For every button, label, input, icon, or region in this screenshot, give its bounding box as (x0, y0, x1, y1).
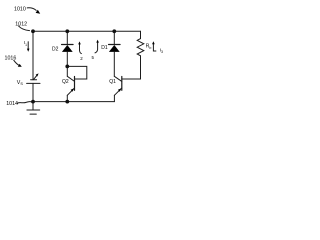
node dot Q2 emitter (65, 100, 69, 104)
label 1012 leader (19, 26, 30, 31)
current arrow I3 (near Rb) (152, 41, 156, 51)
node dot D1 top (112, 29, 116, 33)
svg-text:2: 2 (80, 56, 83, 61)
wire Q1 emitter to rail (113, 95, 115, 101)
diode D1 (109, 45, 120, 52)
svg-text:1016: 1016 (5, 56, 17, 62)
wire bottom rail (33, 101, 114, 103)
svg-text:D1: D1 (101, 45, 108, 51)
svg-text:VS: VS (17, 80, 24, 86)
transistor Q2 (67, 76, 74, 95)
label 1016 leader arrow (14, 60, 22, 67)
current arrow I2 (near D2) (78, 41, 81, 53)
node dot 1012 top-left (31, 29, 35, 33)
svg-text:Q1: Q1 (109, 79, 116, 85)
svg-text:1014: 1014 (6, 101, 18, 107)
ground (27, 102, 40, 115)
wire D1 to Q1 collector (113, 52, 115, 76)
wire left branch lower (32, 83, 34, 101)
label 1014 leader (18, 102, 32, 104)
current arrow (near D1) (95, 40, 99, 53)
wire left branch upper (32, 31, 34, 80)
wire D1 branch upper (113, 31, 115, 44)
wire D2 to Q2 collector (66, 52, 68, 76)
wire Q2 emitter to rail (66, 95, 68, 101)
svg-text:Rb: Rb (146, 44, 152, 50)
node dot D2 top (65, 29, 69, 33)
svg-text:D2: D2 (52, 46, 59, 52)
transistor Q1 (114, 76, 122, 95)
wire Q2 base loop (67, 66, 87, 79)
svg-text:1012: 1012 (15, 22, 27, 28)
wire top rail (33, 30, 141, 32)
svg-text:5: 5 (92, 55, 95, 60)
svg-text:I3: I3 (160, 48, 163, 54)
resistor Rb (122, 31, 144, 79)
voltage source Vs (27, 73, 40, 83)
node dot ground (31, 100, 35, 104)
svg-text:1010: 1010 (14, 7, 26, 13)
current arrow I1 (27, 42, 30, 52)
wire D2 branch upper (66, 31, 68, 44)
label 1010 leader arrow (27, 8, 40, 14)
svg-text:I1: I1 (24, 40, 27, 47)
node dot Q2 base tap (65, 65, 69, 69)
svg-text:Q2: Q2 (62, 79, 69, 85)
diode D2 (62, 45, 73, 52)
